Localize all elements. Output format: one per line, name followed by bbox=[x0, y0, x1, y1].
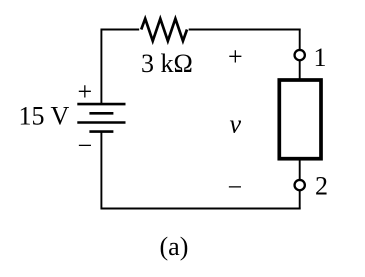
svg-text:+: + bbox=[78, 77, 93, 106]
load element box bbox=[279, 80, 321, 159]
svg-text:15 V: 15 V bbox=[19, 102, 70, 131]
wire node 2 to bottom wire bbox=[299, 190, 301, 209]
node 2 terminal circle bbox=[295, 180, 305, 190]
wire top left segment bbox=[101, 29, 140, 31]
wire right vertical to node 1 bbox=[299, 29, 301, 50]
svg-text:3 kΩ: 3 kΩ bbox=[141, 49, 193, 78]
svg-text:+: + bbox=[228, 42, 243, 71]
svg-text:1: 1 bbox=[314, 43, 327, 72]
svg-text:−: − bbox=[78, 131, 93, 160]
svg-text:v: v bbox=[230, 110, 242, 139]
resistor R1 zigzag bbox=[141, 19, 187, 41]
battery source V1 plate 4 short negative bbox=[89, 130, 113, 133]
battery source V1 plate 3 long bbox=[77, 121, 125, 124]
battery source V1 plate 1 long positive bbox=[77, 103, 125, 106]
battery source V1 plate 2 short bbox=[89, 112, 113, 115]
wire left vertical (top section, source positive lead) bbox=[100, 29, 102, 104]
wire top right segment bbox=[189, 29, 301, 31]
wire box bottom to node 2 bbox=[299, 159, 301, 180]
wire left vertical (bottom section, source negative lead) bbox=[100, 132, 102, 210]
svg-text:−: − bbox=[228, 172, 243, 201]
node 1 terminal circle bbox=[295, 50, 305, 60]
svg-text:2: 2 bbox=[315, 171, 328, 200]
wire bottom horizontal bbox=[101, 208, 301, 210]
wire node 1 to box top bbox=[299, 60, 301, 79]
svg-text:(a): (a) bbox=[160, 232, 189, 261]
